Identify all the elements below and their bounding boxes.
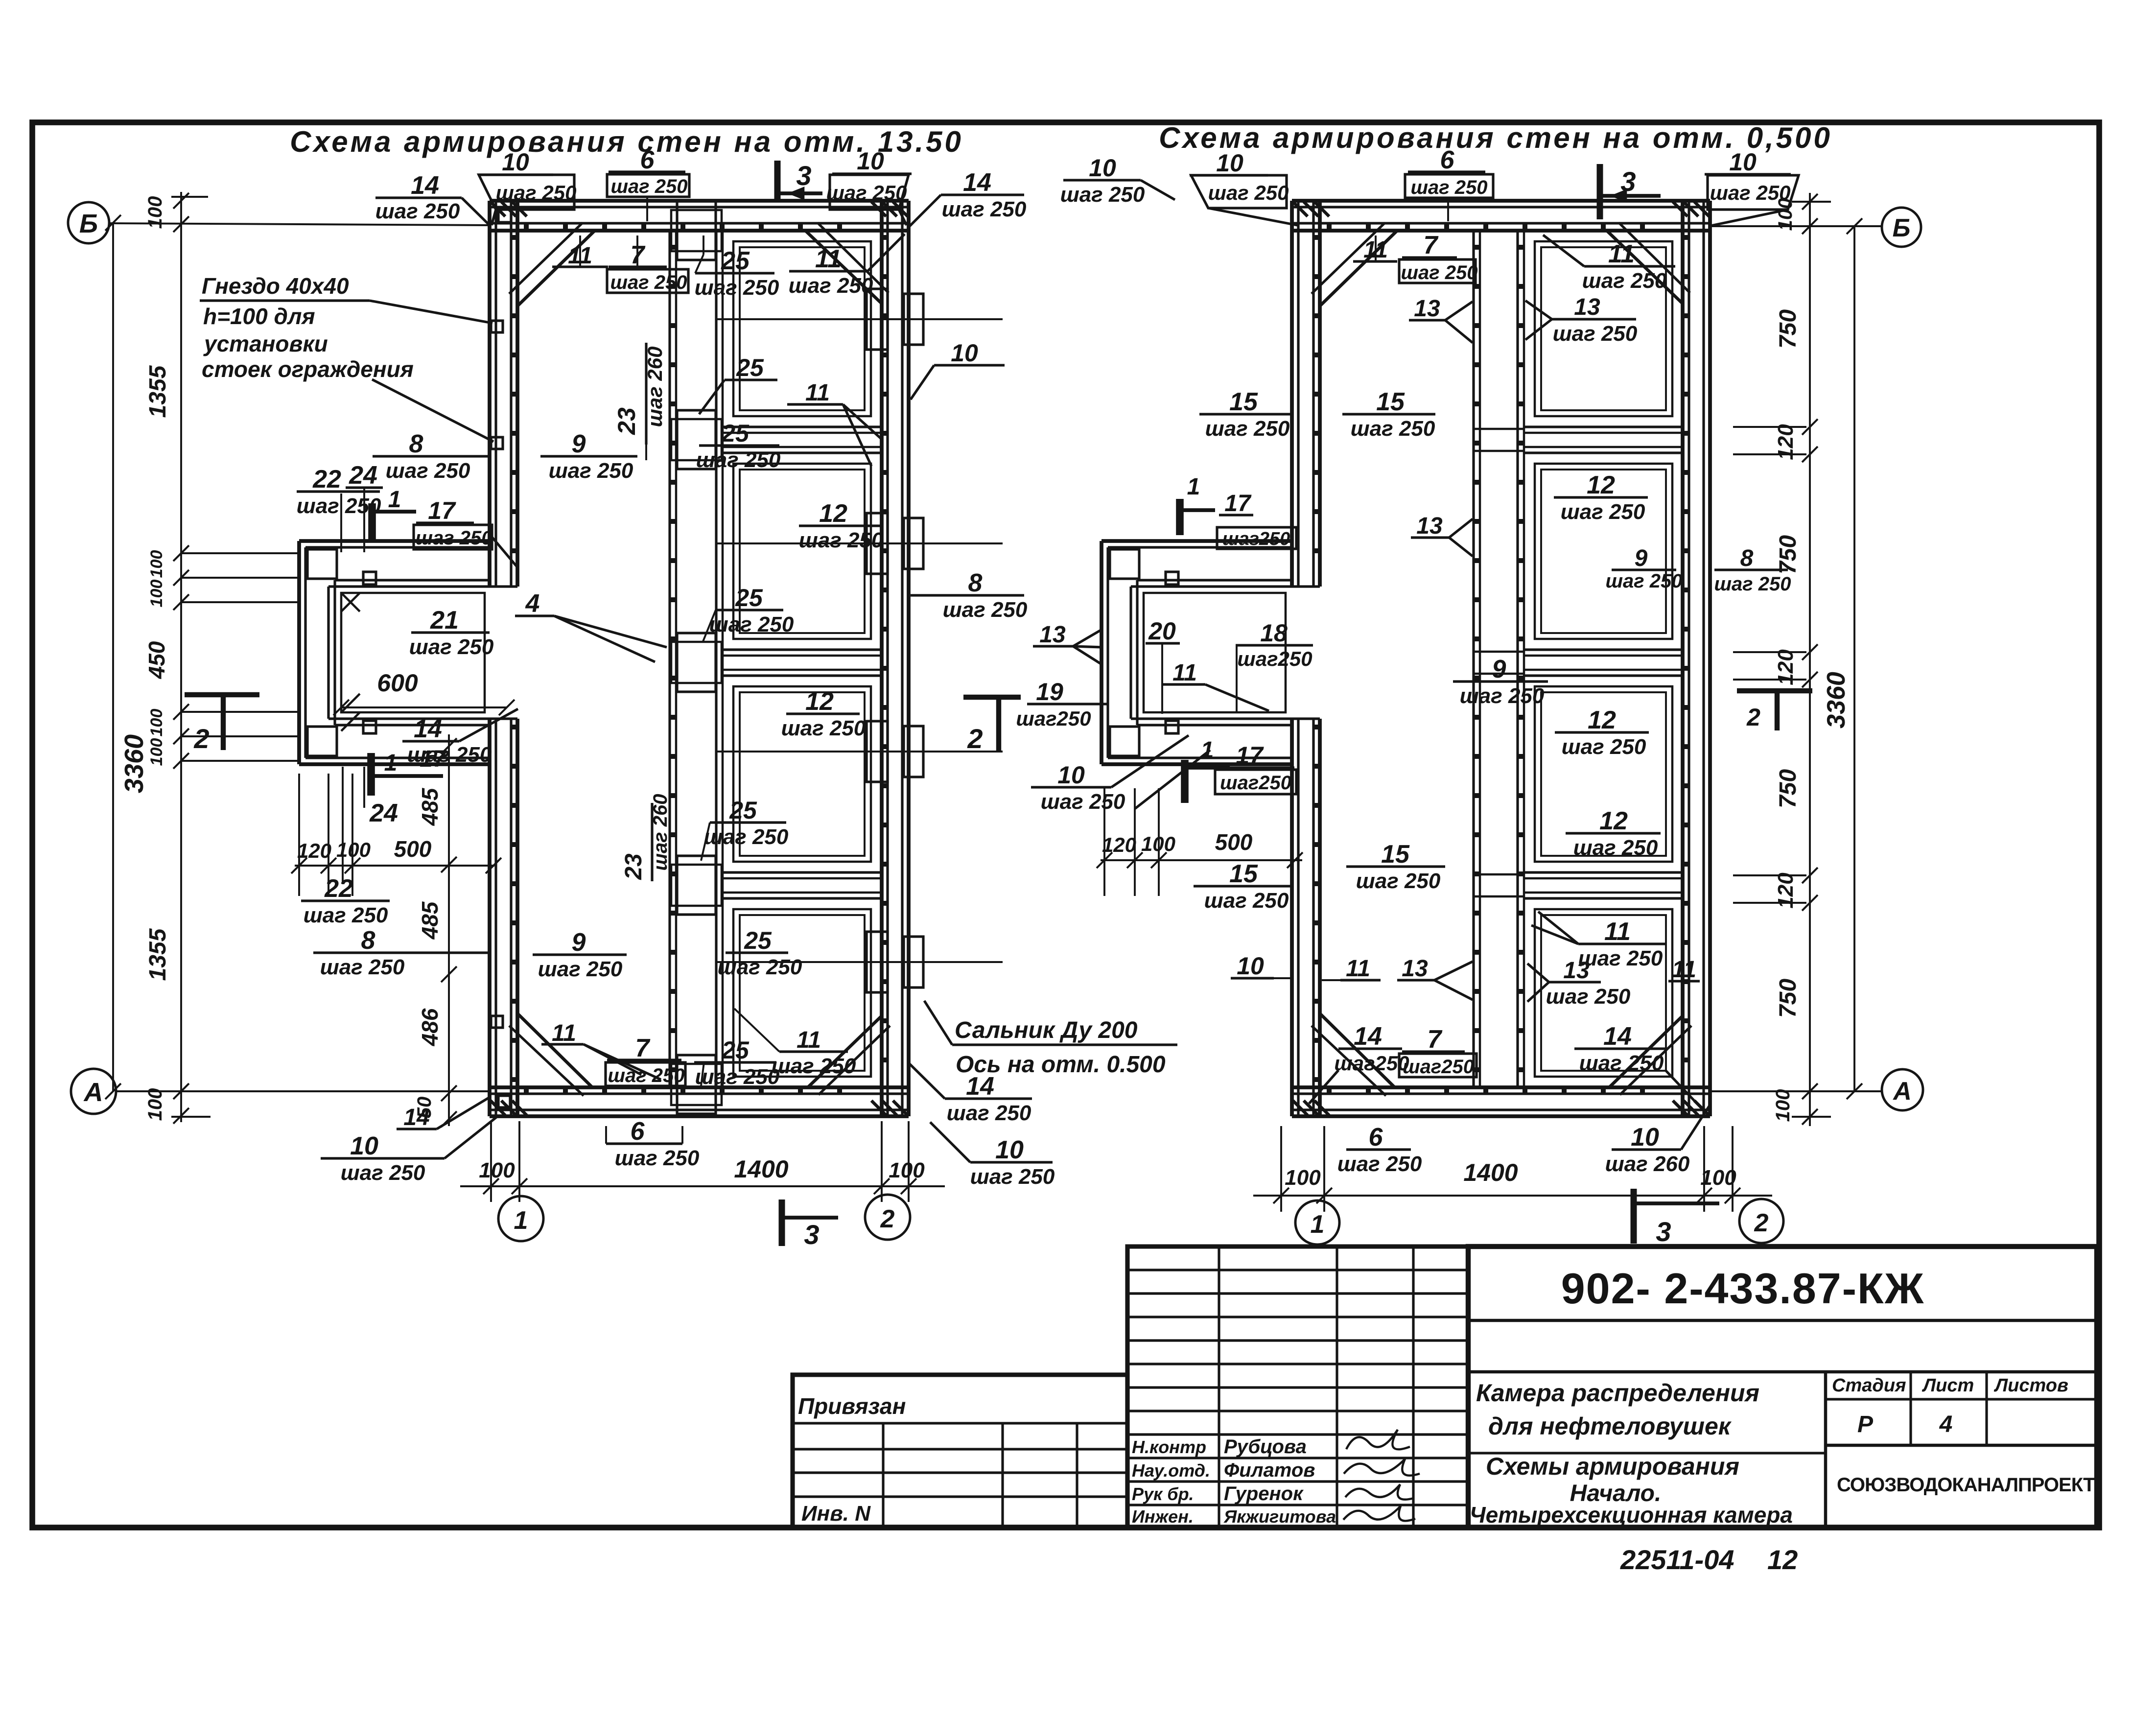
svg-text:25: 25: [744, 927, 772, 954]
left plan socket liner box: [341, 593, 485, 712]
svg-text:шаг 250: шаг 250: [947, 1101, 1031, 1125]
svg-text:11: 11: [1604, 917, 1631, 946]
svg-text:750: 750: [1775, 535, 1801, 574]
svg-text:100: 100: [1700, 1166, 1736, 1190]
left plan socket corner fittings: [307, 549, 337, 579]
right plan cell liner box 3: [1535, 686, 1672, 862]
svg-text:12: 12: [805, 687, 834, 716]
svg-text:12: 12: [1588, 706, 1616, 734]
svg-text:3360: 3360: [1822, 672, 1851, 729]
section mark 3 bottom right plan: [1631, 1189, 1637, 1244]
svg-text:Инв. N: Инв. N: [801, 1502, 871, 1526]
svg-text:4: 4: [525, 589, 540, 618]
left plan cell liner box 1: [733, 241, 871, 416]
svg-text:6: 6: [1440, 146, 1455, 174]
svg-text:21: 21: [430, 606, 459, 635]
svg-text:485: 485: [417, 901, 443, 940]
svg-text:8: 8: [1740, 545, 1754, 571]
svg-text:18: 18: [1260, 619, 1288, 647]
right plan shaft wall east: [1516, 231, 1519, 1087]
svg-text:шаг 250: шаг 250: [1041, 790, 1125, 814]
svg-text:3360: 3360: [119, 734, 149, 793]
section mark 2 middle: [963, 695, 1021, 700]
section mark 1 lower left plan: [367, 753, 375, 796]
right plan corner braces: [1320, 231, 1397, 306]
svg-text:шаг 250: шаг 250: [409, 635, 494, 659]
svg-text:шаг 250: шаг 250: [549, 459, 633, 483]
svg-text:100: 100: [889, 1158, 925, 1182]
svg-text:120: 120: [297, 839, 331, 862]
title block main: [1468, 1247, 2097, 1528]
axis line Б right: [1710, 225, 1882, 227]
svg-text:1400: 1400: [734, 1155, 788, 1183]
left plan shaft gland sleeve at y=471: [677, 201, 716, 260]
svg-text:8: 8: [968, 569, 983, 597]
svg-text:10: 10: [1237, 952, 1264, 980]
svg-text:902- 2-433.87-КЖ: 902- 2-433.87-КЖ: [1561, 1264, 1925, 1313]
svg-text:для нефтеловушек: для нефтеловушек: [1488, 1412, 1732, 1440]
right plan cell liner box 1: [1535, 241, 1672, 416]
svg-text:Стадия: Стадия: [1832, 1375, 1906, 1396]
svg-text:1400: 1400: [1463, 1159, 1518, 1186]
right plan cell liner box 2: [1535, 464, 1672, 639]
svg-text:шаг 250: шаг 250: [696, 448, 781, 472]
axis line А right: [1710, 1090, 1882, 1092]
svg-text:750: 750: [1775, 309, 1801, 349]
svg-text:23: 23: [621, 853, 647, 880]
svg-text:шаг 250: шаг 250: [1579, 1051, 1664, 1075]
left plan partition wall 2: [723, 648, 882, 651]
svg-text:10: 10: [951, 339, 978, 367]
svg-text:7: 7: [1428, 1025, 1443, 1054]
svg-text:1355: 1355: [145, 928, 171, 981]
svg-text:20: 20: [1148, 617, 1176, 645]
right plan top wall: [1292, 199, 1710, 203]
svg-text:шаг 250: шаг 250: [610, 272, 687, 293]
svg-text:шаг 250: шаг 250: [1204, 889, 1289, 913]
svg-text:14: 14: [411, 171, 439, 200]
svg-text:7: 7: [1424, 231, 1439, 259]
svg-text:19: 19: [1036, 678, 1063, 706]
right plan shaft wall west: [1472, 231, 1475, 1087]
svg-text:1: 1: [1311, 1210, 1325, 1239]
svg-text:14: 14: [414, 715, 442, 743]
svg-text:шаг 250: шаг 250: [415, 527, 492, 549]
svg-text:25: 25: [721, 247, 750, 275]
svg-text:Лист: Лист: [1922, 1375, 1974, 1396]
svg-text:шаг 250: шаг 250: [826, 181, 907, 204]
left plan central shaft wall west: [668, 231, 671, 1087]
bottom dimension line left plan: [460, 1185, 945, 1187]
svg-text:шаг 250: шаг 250: [695, 276, 779, 300]
svg-text:6: 6: [640, 146, 655, 174]
left plan right wall: [880, 201, 884, 1116]
svg-text:шаг 250: шаг 250: [386, 459, 470, 483]
svg-text:шаг 250: шаг 250: [704, 825, 789, 849]
svg-text:13: 13: [1039, 622, 1066, 648]
svg-text:11: 11: [1608, 240, 1635, 268]
left plan right-wall gland sleeve at y=1535: [867, 721, 888, 782]
left plan bottom wall: [490, 1085, 909, 1089]
svg-text:7: 7: [635, 1034, 651, 1062]
svg-text:Схемы армирования: Схемы армирования: [1486, 1453, 1739, 1480]
svg-text:13: 13: [1402, 956, 1428, 982]
svg-text:6: 6: [1369, 1123, 1383, 1152]
section mark 1 right plan: [1181, 760, 1189, 803]
section mark 3 top right plan: [1597, 164, 1603, 219]
svg-text:15: 15: [1381, 840, 1410, 869]
svg-text:Якжигитова: Якжигитова: [1223, 1506, 1336, 1527]
small anchor squares on socket: [363, 572, 376, 585]
svg-text:шаг250: шаг250: [1016, 707, 1091, 730]
svg-text:шаг 260: шаг 260: [650, 794, 671, 870]
svg-text:10: 10: [1216, 149, 1243, 177]
svg-text:100: 100: [1772, 1089, 1794, 1122]
svg-text:Гнездо 40х40: Гнездо 40х40: [202, 273, 349, 299]
svg-text:h=100 для: h=100 для: [203, 304, 315, 329]
signatures: [1346, 1430, 1410, 1449]
svg-text:шаг 250: шаг 250: [1582, 269, 1667, 293]
svg-text:500: 500: [1215, 829, 1253, 855]
svg-text:17: 17: [420, 746, 447, 772]
svg-text:шаг 250: шаг 250: [1714, 573, 1791, 595]
svg-text:3: 3: [804, 1219, 819, 1250]
svg-text:шаг 250: шаг 250: [1351, 417, 1435, 441]
left margin dimension chain: [180, 192, 182, 1122]
axis line Б: [109, 223, 490, 225]
svg-text:25: 25: [735, 584, 763, 612]
svg-text:Четырехсекционная камера: Четырехсекционная камера: [1470, 1502, 1793, 1528]
svg-text:4: 4: [1939, 1411, 1953, 1437]
left plan central shaft wall east: [715, 231, 717, 1087]
label 23 шаг260 vertical upper: [645, 343, 647, 445]
left plan shaft gland sleeve at y=1353: [677, 633, 716, 692]
left plan cell liner box 4: [733, 909, 871, 1077]
svg-text:750: 750: [1775, 769, 1801, 808]
svg-text:шаг 250: шаг 250: [1573, 836, 1658, 860]
right plan socket liner box: [1144, 593, 1286, 712]
svg-text:Гуренок: Гуренок: [1224, 1483, 1304, 1505]
svg-text:шаг 250: шаг 250: [1578, 946, 1663, 970]
svg-text:3: 3: [796, 160, 811, 191]
svg-text:Б: Б: [79, 209, 98, 238]
svg-text:17: 17: [1224, 491, 1252, 517]
svg-text:10: 10: [502, 148, 529, 176]
svg-text:шаг 250: шаг 250: [608, 1065, 684, 1086]
right plan partition wall 3: [1524, 871, 1683, 873]
svg-text:стоек ограждения: стоек ограждения: [202, 356, 414, 382]
svg-text:12: 12: [1587, 471, 1615, 499]
Гнездо 40x40 sockets on left wall: [498, 210, 511, 222]
svg-text:1: 1: [384, 750, 398, 776]
axis circle 1 right plan: [1295, 1200, 1339, 1245]
svg-text:24: 24: [349, 461, 377, 490]
svg-text:10: 10: [857, 147, 884, 175]
svg-text:шаг 250: шаг 250: [1410, 177, 1487, 198]
svg-text:15: 15: [1376, 388, 1405, 416]
axis circle 2 right plan: [1739, 1199, 1783, 1243]
svg-text:шаг 250: шаг 250: [709, 612, 794, 636]
title block attachment table (Привязан): [793, 1375, 1127, 1528]
left plan cell liner box 2: [733, 464, 871, 639]
svg-text:10: 10: [1089, 154, 1116, 182]
svg-text:25: 25: [736, 354, 764, 381]
svg-text:11: 11: [552, 1020, 576, 1046]
left plan shaft gland sleeve at y=1808: [677, 856, 716, 915]
svg-text:13: 13: [1574, 294, 1600, 320]
svg-text:2: 2: [193, 723, 209, 754]
svg-text:шаг 250: шаг 250: [1562, 735, 1646, 759]
svg-text:9: 9: [1492, 655, 1506, 683]
axis А left circle: [71, 1069, 116, 1114]
svg-text:шаг 250: шаг 250: [297, 494, 381, 518]
right plan partition wall 1: [1524, 425, 1683, 428]
svg-text:14: 14: [403, 1105, 429, 1130]
svg-text:шаг 250: шаг 250: [1546, 985, 1631, 1009]
right margin dimension chain: [1809, 193, 1811, 1126]
svg-text:1: 1: [388, 487, 401, 513]
right plan left socket chamber outer walls: [1101, 539, 1292, 543]
svg-text:1: 1: [1187, 474, 1200, 500]
axis Б left circle: [68, 202, 109, 243]
svg-text:2: 2: [1746, 704, 1760, 731]
svg-text:2: 2: [1754, 1209, 1769, 1237]
svg-text:СОЮЗВОДОКАНАЛПРОЕКТ: СОЮЗВОДОКАНАЛПРОЕКТ: [1837, 1474, 2095, 1496]
svg-text:12: 12: [819, 499, 847, 528]
svg-text:23: 23: [613, 407, 640, 435]
svg-text:100: 100: [144, 1088, 166, 1121]
svg-text:шаг 250: шаг 250: [1553, 322, 1638, 346]
left plan right-wall gland sleeve at y=652: [867, 289, 888, 350]
svg-text:500: 500: [394, 836, 432, 862]
svg-text:шаг 250: шаг 250: [1401, 262, 1477, 283]
svg-text:шаг 250: шаг 250: [1460, 684, 1545, 708]
svg-text:6: 6: [631, 1117, 645, 1146]
svg-text:120: 120: [1102, 833, 1136, 856]
left plan corner braces: [517, 231, 595, 306]
svg-text:1: 1: [514, 1206, 528, 1235]
svg-text:Филатов: Филатов: [1224, 1459, 1315, 1481]
svg-text:10: 10: [1057, 761, 1085, 789]
svg-text:Б: Б: [1893, 214, 1911, 242]
axis Б right circle: [1882, 208, 1921, 247]
svg-text:13: 13: [1414, 296, 1440, 322]
svg-text:8: 8: [409, 430, 423, 458]
svg-text:14: 14: [963, 168, 991, 197]
vertical dim chain 485 485 486 50: [448, 734, 450, 1126]
svg-text:шаг 260: шаг 260: [643, 347, 666, 427]
svg-text:шаг 250: шаг 250: [970, 1165, 1055, 1189]
svg-text:11: 11: [1672, 957, 1696, 983]
right plan bottom wall: [1292, 1085, 1710, 1089]
svg-text:100: 100: [147, 709, 166, 737]
svg-text:8: 8: [361, 926, 375, 955]
svg-text:шаг 250: шаг 250: [943, 598, 1028, 622]
svg-text:шаг250: шаг250: [1403, 1056, 1474, 1078]
svg-text:Рук бр.: Рук бр.: [1132, 1484, 1194, 1504]
svg-text:100: 100: [144, 196, 166, 229]
svg-text:Ось на отм. 0.500: Ось на отм. 0.500: [956, 1052, 1166, 1078]
svg-text:2: 2: [880, 1205, 895, 1233]
svg-text:25: 25: [729, 797, 757, 824]
svg-text:Камера распределения: Камера распределения: [1476, 1379, 1759, 1407]
svg-text:Инжен.: Инжен.: [1132, 1506, 1194, 1527]
svg-text:100: 100: [336, 838, 371, 861]
svg-text:2: 2: [967, 723, 983, 754]
left plan right-wall gland sleeve at y=1965: [867, 932, 888, 992]
svg-text:шаг 250: шаг 250: [341, 1161, 425, 1185]
svg-text:А: А: [1892, 1077, 1912, 1105]
svg-text:15: 15: [1229, 388, 1258, 416]
svg-text:Листов: Листов: [1993, 1375, 2068, 1396]
svg-text:9: 9: [572, 928, 586, 957]
title block small grid: [1127, 1247, 1468, 1528]
section mark 2 right: [1737, 688, 1812, 693]
svg-text:22: 22: [312, 465, 341, 494]
axis circle 2 left plan: [865, 1195, 910, 1240]
svg-text:24: 24: [369, 799, 398, 827]
svg-text:15: 15: [1229, 860, 1258, 888]
svg-text:450: 450: [144, 641, 169, 679]
svg-text:13: 13: [1416, 513, 1443, 539]
section mark 1 upper rp + label 17 шаг250: [1176, 499, 1184, 535]
left plan shaft gland sleeve at y=2215: [677, 1055, 716, 1114]
svg-text:750: 750: [1775, 979, 1801, 1018]
svg-text:14: 14: [1354, 1022, 1382, 1051]
svg-text:12: 12: [1767, 1544, 1798, 1575]
svg-text:шаг 250: шаг 250: [789, 274, 873, 298]
svg-text:шаг 250: шаг 250: [772, 1054, 856, 1078]
svg-text:10: 10: [995, 1136, 1024, 1164]
svg-text:11: 11: [797, 1027, 821, 1053]
svg-text:486: 486: [417, 1008, 443, 1046]
svg-text:шаг 250: шаг 250: [375, 199, 460, 223]
svg-text:11: 11: [805, 380, 830, 406]
svg-text:12: 12: [1599, 807, 1628, 835]
svg-text:шаг 250: шаг 250: [1337, 1152, 1422, 1176]
svg-text:3: 3: [1620, 166, 1636, 197]
svg-text:100: 100: [147, 580, 166, 608]
svg-text:шаг 260: шаг 260: [1605, 1152, 1690, 1176]
svg-text:Сальник Ду 200: Сальник Ду 200: [955, 1017, 1138, 1043]
section mark 3 bottom left plan: [779, 1200, 785, 1246]
svg-text:22511-04: 22511-04: [1620, 1544, 1734, 1575]
svg-text:шаг 250: шаг 250: [695, 1065, 780, 1089]
left plan partition wall 1: [723, 425, 882, 428]
svg-text:шаг 250: шаг 250: [1208, 181, 1289, 204]
svg-text:25: 25: [721, 420, 750, 447]
svg-text:шаг 250: шаг 250: [615, 1146, 700, 1170]
svg-text:100: 100: [479, 1158, 515, 1182]
parallelogram and box leaders to walls: [492, 210, 496, 225]
svg-text:А: А: [83, 1078, 103, 1107]
svg-text:шаг250: шаг250: [1222, 529, 1290, 549]
svg-text:9: 9: [572, 430, 586, 458]
sheet border frame: [32, 122, 2099, 1528]
svg-text:шаг 250: шаг 250: [1356, 869, 1441, 893]
left plan right-wall gland sleeve at y=1110: [867, 513, 888, 574]
svg-text:шаг 250: шаг 250: [320, 955, 405, 979]
left plan top wall: [490, 199, 909, 203]
svg-text:13: 13: [1563, 958, 1590, 984]
svg-text:шаг 250: шаг 250: [1710, 181, 1791, 204]
left margin dimension line 3360: [112, 223, 114, 1091]
svg-text:600: 600: [377, 669, 418, 697]
svg-text:9: 9: [1635, 545, 1648, 571]
svg-text:1: 1: [1201, 737, 1214, 763]
section mark 2 left margin: [185, 692, 259, 697]
right plan socket corner fittings: [1110, 549, 1139, 579]
right margin dimension line 3360: [1853, 226, 1855, 1091]
svg-text:шаг 250: шаг 250: [610, 176, 687, 197]
svg-text:11: 11: [815, 245, 842, 273]
svg-text:17: 17: [428, 497, 456, 524]
section mark 1 upper left plan: [368, 503, 376, 540]
svg-text:шаг 250: шаг 250: [799, 528, 884, 552]
svg-text:шаг 250: шаг 250: [496, 181, 577, 204]
svg-text:3: 3: [1656, 1216, 1671, 1247]
svg-text:14: 14: [1603, 1022, 1632, 1051]
axis А right circle: [1882, 1069, 1923, 1110]
svg-text:25: 25: [721, 1036, 750, 1064]
left plan partition wall 3: [723, 871, 882, 873]
svg-text:установки: установки: [203, 331, 328, 356]
axis line А: [116, 1090, 490, 1092]
svg-text:Р: Р: [1857, 1411, 1874, 1437]
svg-text:шаг250: шаг250: [1220, 772, 1291, 794]
svg-text:485: 485: [417, 787, 443, 826]
svg-text:Н.контр: Н.контр: [1132, 1437, 1206, 1457]
svg-text:17: 17: [1236, 742, 1264, 769]
svg-text:шаг 250: шаг 250: [718, 955, 802, 979]
bottom dimension line right plan: [1253, 1195, 1772, 1197]
right plan right wall: [1681, 201, 1685, 1116]
svg-text:шаг 250: шаг 250: [942, 197, 1027, 221]
svg-text:шаг 250: шаг 250: [304, 903, 388, 927]
left plan cell liner box 3: [733, 686, 871, 862]
right plan left wall (opening 1198-1468): [1290, 201, 1294, 587]
svg-text:шаг 250: шаг 250: [1561, 500, 1645, 524]
left plan shaft gland sleeve at y=898: [677, 410, 716, 469]
svg-text:Рубцова: Рубцова: [1224, 1436, 1307, 1458]
svg-text:шаг 250: шаг 250: [1605, 570, 1682, 592]
right plan cell liner box 4: [1535, 909, 1672, 1077]
svg-text:11: 11: [1172, 660, 1197, 686]
svg-text:Нау.отд.: Нау.отд.: [1132, 1460, 1210, 1481]
svg-text:100: 100: [147, 738, 166, 766]
svg-text:шаг 250: шаг 250: [781, 716, 866, 740]
svg-text:шаг 250: шаг 250: [1060, 183, 1145, 207]
svg-text:шаг 250: шаг 250: [1205, 417, 1290, 441]
right plan partition wall 2: [1524, 648, 1683, 651]
left plan left socket chamber outer walls: [299, 539, 490, 543]
label 23 шаг260 vertical lower: [651, 803, 653, 881]
svg-text:1355: 1355: [145, 365, 171, 418]
svg-text:100: 100: [147, 550, 166, 578]
svg-text:Привязан: Привязан: [798, 1393, 906, 1419]
section mark 3 top left plan: [774, 161, 781, 202]
axis circle 1 left plan: [498, 1196, 543, 1241]
svg-text:10: 10: [1631, 1123, 1659, 1152]
svg-text:100: 100: [1285, 1166, 1321, 1190]
svg-text:шаг 250: шаг 250: [538, 957, 623, 981]
left plan left wall (opening 1198-1468): [488, 201, 492, 587]
svg-text:10: 10: [1729, 148, 1757, 176]
svg-text:10: 10: [350, 1132, 378, 1160]
svg-text:11: 11: [1346, 956, 1370, 982]
svg-text:шаг250: шаг250: [1237, 647, 1312, 670]
